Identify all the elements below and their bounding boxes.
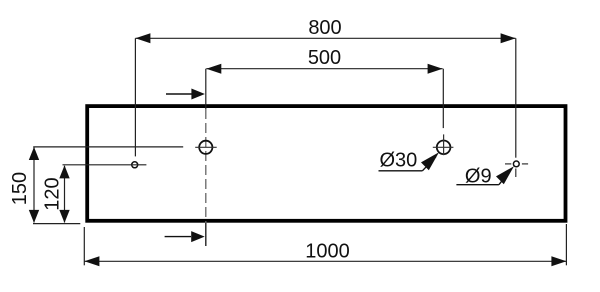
- svg-text:800: 800: [308, 17, 341, 39]
- dimension 150 bottom arrow: [29, 210, 39, 223]
- svg-text:120: 120: [42, 177, 64, 210]
- O9 leader arrow: [496, 166, 514, 184]
- O9 hole: [513, 161, 519, 167]
- O9 leader diagonal: [499, 170, 511, 185]
- datum arrow upper: [166, 89, 205, 100]
- dimension 150 line: [33, 148, 35, 223]
- svg-text:500: 500: [308, 47, 341, 69]
- left small hole: [132, 162, 138, 168]
- O30 leader diagonal: [422, 157, 436, 171]
- extension line 120 top (small hole row): [63, 164, 147, 166]
- dimension 120 bottom arrow: [59, 210, 69, 223]
- O30 leader underline: [379, 170, 423, 172]
- O9 hole horizontal crosshair right: [522, 163, 528, 165]
- O9 leader underline: [456, 184, 499, 186]
- extension line 150 top (hole row): [33, 146, 183, 148]
- O30 hole: [437, 141, 451, 155]
- plate outline: [87, 106, 565, 221]
- extension line 1000 right: [565, 224, 567, 265]
- extension line right of 800 (to O9 hole): [515, 38, 517, 157]
- dimension 1000 left arrow: [84, 256, 99, 266]
- center hole: [199, 141, 212, 154]
- dimension 800 line: [135, 37, 515, 39]
- centerline dashed through center hole: [205, 109, 207, 223]
- svg-text:150: 150: [9, 172, 31, 205]
- dimension 800 left arrow: [135, 33, 150, 43]
- dimension 500 right arrow: [428, 64, 443, 74]
- O9 hole horizontal crosshair left: [505, 163, 511, 165]
- extension line left of 500: [205, 69, 207, 109]
- dimension 1000 line: [84, 260, 566, 262]
- svg-text:Ø30: Ø30: [380, 150, 418, 172]
- extension line right of 500 (to O30 hole): [442, 69, 444, 128]
- dimension 500 left arrow: [206, 64, 221, 74]
- center hole horizontal crosshair: [195, 146, 217, 148]
- datum arrow lower: [165, 231, 205, 242]
- dimension 150 top arrow: [29, 147, 39, 160]
- extension line 1000 left: [83, 227, 85, 265]
- svg-text:1000: 1000: [305, 240, 350, 262]
- O9 hole vertical below: [515, 169, 517, 178]
- extension line 150/120 bottom: [33, 223, 80, 225]
- dimension 1000 right arrow: [551, 256, 566, 266]
- extension line left of 800 (to small hole): [134, 38, 136, 156]
- O30 hole vertical crosshair: [443, 134, 445, 155]
- dimension 120 top arrow: [59, 165, 69, 178]
- O30 hole horizontal crosshair: [433, 146, 454, 148]
- dimension 120 line: [64, 166, 66, 223]
- dimension 500 line: [206, 68, 442, 70]
- O30 leader arrow: [421, 152, 439, 170]
- dimension 800 right arrow: [501, 33, 516, 43]
- centerline solid below plate: [205, 223, 207, 246]
